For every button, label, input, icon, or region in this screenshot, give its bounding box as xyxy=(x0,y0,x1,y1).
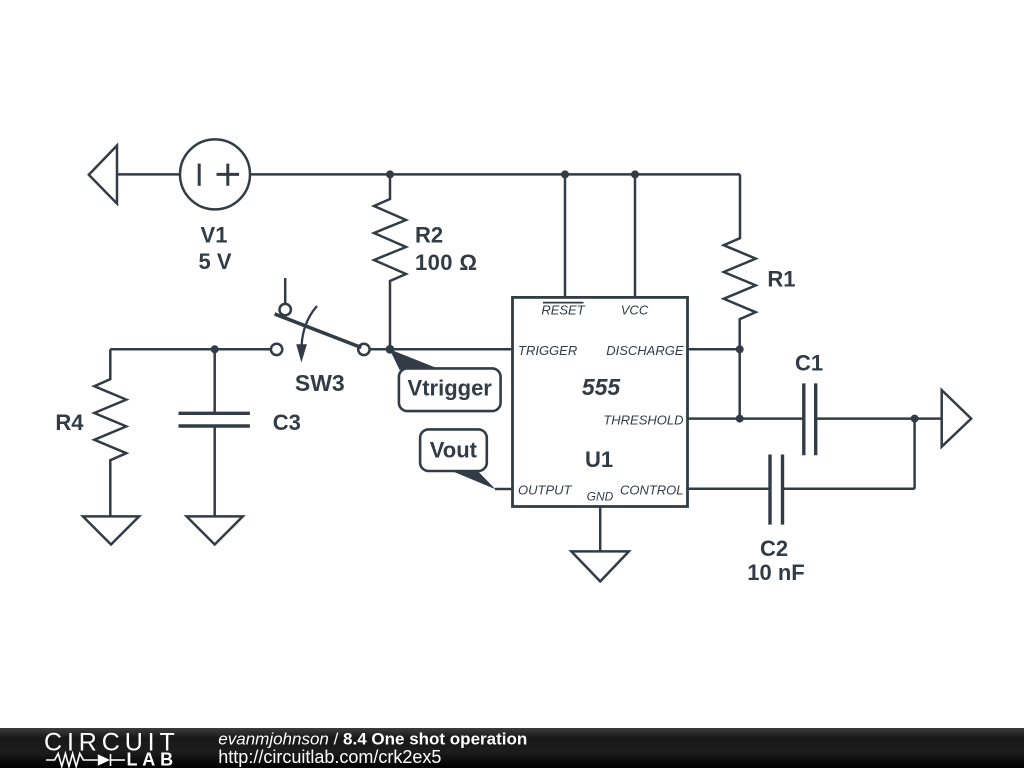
svg-text:555: 555 xyxy=(582,374,622,400)
svg-text:DISCHARGE: DISCHARGE xyxy=(606,343,684,358)
svg-text:Vout: Vout xyxy=(430,438,478,463)
svg-text:R4: R4 xyxy=(55,410,84,435)
svg-text:VCC: VCC xyxy=(621,302,649,317)
svg-text:OUTPUT: OUTPUT xyxy=(518,483,573,498)
svg-text:C3: C3 xyxy=(273,410,301,435)
svg-text:CONTROL: CONTROL xyxy=(620,483,684,498)
svg-text:U1: U1 xyxy=(585,447,613,472)
svg-text:SW3: SW3 xyxy=(295,370,345,396)
svg-text:100 Ω: 100 Ω xyxy=(415,250,477,275)
svg-text:10 nF: 10 nF xyxy=(747,560,804,585)
svg-text:V1: V1 xyxy=(201,222,228,247)
svg-text:C2: C2 xyxy=(760,536,788,561)
svg-text:LAB: LAB xyxy=(127,750,178,768)
svg-text:5 V: 5 V xyxy=(198,249,231,274)
svg-text:http://circuitlab.com/crk2ex5: http://circuitlab.com/crk2ex5 xyxy=(218,747,441,767)
svg-text:evanmjohnson / 8.4 One shot op: evanmjohnson / 8.4 One shot operation xyxy=(218,729,527,748)
svg-text:RESET: RESET xyxy=(541,302,585,317)
svg-text:R1: R1 xyxy=(767,267,795,292)
svg-text:THRESHOLD: THRESHOLD xyxy=(603,412,683,427)
svg-text:Vtrigger: Vtrigger xyxy=(408,375,493,400)
svg-text:C1: C1 xyxy=(795,351,823,376)
svg-text:GND: GND xyxy=(587,490,614,504)
svg-text:TRIGGER: TRIGGER xyxy=(518,343,577,358)
svg-text:R2: R2 xyxy=(415,223,443,248)
